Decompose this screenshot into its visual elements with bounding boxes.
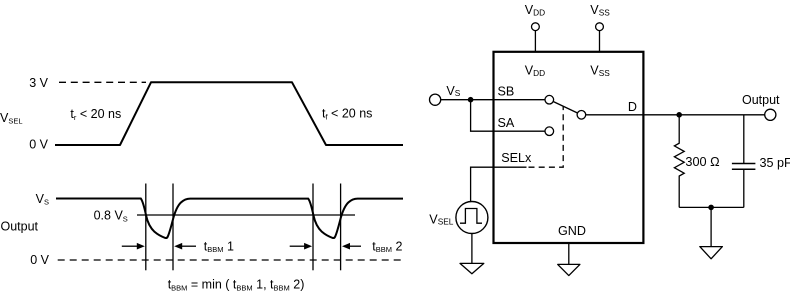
arrow left 2 xyxy=(342,243,361,250)
wire VS to SA xyxy=(471,100,546,132)
svg-text:SA: SA xyxy=(498,116,515,130)
marker line 3 xyxy=(312,184,314,271)
arrow right 2 xyxy=(290,243,312,250)
junction dot D node xyxy=(676,112,682,118)
VS terminal circle xyxy=(430,94,441,105)
marker line 4 xyxy=(340,184,342,271)
wire GND pin stem xyxy=(568,243,570,264)
marker line 2 xyxy=(172,184,174,271)
svg-text:3 V: 3 V xyxy=(29,76,48,90)
SELx dashed control line xyxy=(529,106,564,167)
Output terminal circle xyxy=(765,109,776,120)
capacitor C1 35 pF top stem xyxy=(743,115,745,164)
SA contact circle xyxy=(545,127,554,136)
svg-text:Output: Output xyxy=(1,219,39,233)
0V dashed reference line lower xyxy=(58,259,405,261)
svg-text:0.8 VS: 0.8 VS xyxy=(94,208,128,223)
capacitor C1 plates xyxy=(732,163,756,165)
ground load xyxy=(700,247,723,259)
switch blade xyxy=(553,102,577,114)
svg-text:0 V: 0 V xyxy=(30,253,49,267)
wire VS to SB xyxy=(441,99,546,101)
junction dot VS node xyxy=(468,97,474,103)
pulse symbol xyxy=(460,209,482,224)
svg-text:tf < 20 ns: tf < 20 ns xyxy=(322,107,372,122)
svg-text:Output: Output xyxy=(742,93,780,107)
svg-text:35 pF: 35 pF xyxy=(760,156,790,170)
arrow left 1 xyxy=(174,243,196,250)
capacitor C1 bottom stem xyxy=(743,169,745,207)
VSEL pulse source circle xyxy=(456,202,488,234)
3V dashed reference line xyxy=(59,81,146,83)
ground GND xyxy=(558,264,580,275)
VSS terminal circle xyxy=(596,23,604,31)
svg-text:GND: GND xyxy=(558,224,586,238)
switch common contact circle xyxy=(577,111,586,120)
svg-text:SB: SB xyxy=(498,84,515,98)
svg-text:0 V: 0 V xyxy=(29,137,48,151)
arrow right 1 xyxy=(122,243,145,250)
marker line 1 xyxy=(145,184,147,271)
wire VDD pin stem xyxy=(534,31,536,52)
ground VSEL xyxy=(460,263,484,273)
output waveform xyxy=(56,199,403,239)
svg-text:D: D xyxy=(628,100,637,114)
svg-text:tr < 20 ns: tr < 20 ns xyxy=(70,107,121,122)
IC box U1 xyxy=(494,52,644,243)
wire D output line xyxy=(586,114,765,116)
SB contact circle xyxy=(545,95,554,104)
wire load bottom xyxy=(679,206,744,208)
0.8 VS threshold line xyxy=(137,214,355,216)
wire VSEL to ground xyxy=(471,234,473,264)
resistor R1 300 ohm xyxy=(674,115,684,208)
wire load to ground xyxy=(710,207,712,246)
VSEL waveform xyxy=(55,82,403,145)
svg-text:SELx: SELx xyxy=(501,151,532,165)
svg-text:300 Ω: 300 Ω xyxy=(685,155,719,169)
junction dot load ground node xyxy=(708,205,714,211)
wire VSS pin stem xyxy=(599,31,601,52)
wire SELx solid xyxy=(471,167,527,201)
VDD terminal circle xyxy=(532,23,540,31)
